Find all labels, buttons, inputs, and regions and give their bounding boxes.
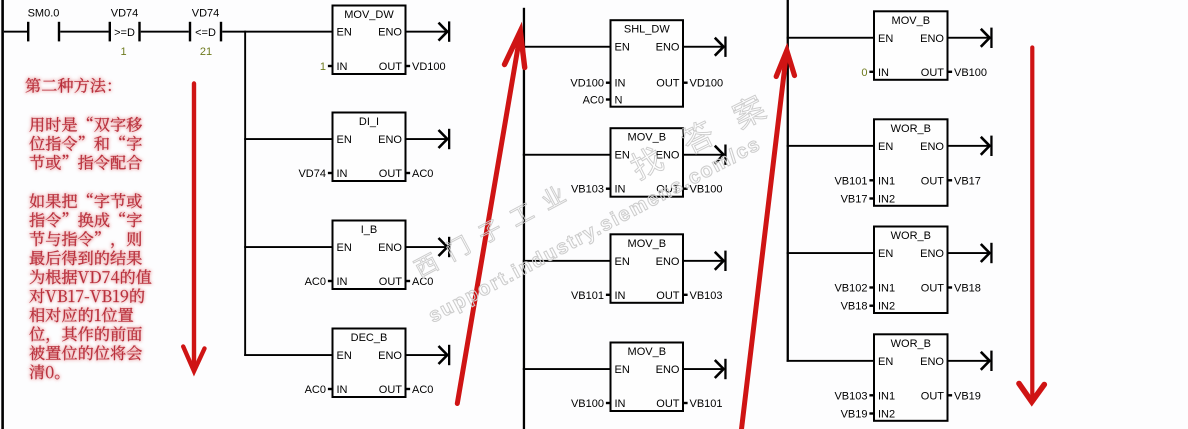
wire branch to DI_I EN <box>244 138 333 140</box>
svg-text:IN: IN <box>615 398 626 410</box>
svg-text:VB103: VB103 <box>834 390 867 402</box>
svg-text:EN: EN <box>615 256 630 268</box>
wire WOR_B n3a ENO to arrow <box>948 145 991 147</box>
svg-text:AC0: AC0 <box>412 168 433 180</box>
svg-text:OUT: OUT <box>921 175 945 187</box>
svg-text:EN: EN <box>615 364 630 376</box>
svg-text:ENO: ENO <box>920 248 944 260</box>
svg-text:OUT: OUT <box>656 398 680 410</box>
wire SM0.0 to VD74 compare1 <box>60 31 108 33</box>
svg-text:ENO: ENO <box>378 350 402 362</box>
wire compare1 to compare2 <box>141 31 189 33</box>
arrow net3 rung3 open <box>981 244 990 262</box>
block WOR_B n3c <box>874 334 948 421</box>
svg-text:OUT: OUT <box>921 67 945 79</box>
wire compare2 to block MOV_DW EN <box>222 31 333 33</box>
wire MOV_B n2a ENO to arrow <box>683 154 724 156</box>
wire rail3 to net3 block1 EN <box>787 37 875 39</box>
svg-text:1: 1 <box>320 61 326 73</box>
svg-text:VB101: VB101 <box>834 175 867 187</box>
svg-text:MOV_B: MOV_B <box>892 15 931 27</box>
svg-text:VB101: VB101 <box>571 290 604 302</box>
wire rail3 to net3 block4 EN <box>787 360 875 362</box>
arrow rung1 open <box>439 23 448 41</box>
contact compare VD74 &gt;=D 1 <box>109 22 111 42</box>
arrow net2 rung3 open <box>715 252 724 270</box>
svg-text:ENO: ENO <box>656 42 680 54</box>
svg-text:ENO: ENO <box>656 150 680 162</box>
red arrow long down right <box>1019 48 1044 402</box>
svg-text:EN: EN <box>878 248 893 260</box>
wire I_B ENO to arrow <box>406 246 449 248</box>
block SHL_DW <box>611 20 684 107</box>
svg-text:ENO: ENO <box>378 27 402 39</box>
svg-text:EN: EN <box>337 27 352 39</box>
svg-text:>=D: >=D <box>114 27 135 39</box>
svg-text:I_B: I_B <box>361 224 378 236</box>
block I_B <box>333 221 406 290</box>
svg-text:IN2: IN2 <box>878 194 895 206</box>
svg-text:SHL_DW: SHL_DW <box>624 24 670 36</box>
svg-text:WOR_B: WOR_B <box>891 338 931 350</box>
svg-text:AC0: AC0 <box>583 95 604 107</box>
svg-text:OUT: OUT <box>379 61 403 73</box>
arrow net2 rung4 open <box>715 360 724 378</box>
arrow rung3 open <box>439 238 448 256</box>
arrow net3 rung4 open <box>981 352 990 370</box>
svg-text:EN: EN <box>878 141 893 153</box>
red arrow up to network3 <box>742 51 795 429</box>
svg-text:ENO: ENO <box>656 256 680 268</box>
svg-text:ENO: ENO <box>656 364 680 376</box>
svg-text:ENO: ENO <box>920 33 944 45</box>
svg-text:OUT: OUT <box>379 276 403 288</box>
power rail left <box>1 0 4 429</box>
arrow rung4 open <box>439 346 448 364</box>
svg-text:OUT: OUT <box>379 168 403 180</box>
wire MOV_DW ENO to arrow <box>406 31 449 33</box>
svg-text:OUT: OUT <box>656 78 680 90</box>
wire rung1 rail to contact SM0.0 <box>4 31 27 33</box>
wire rail2 to net2 block4 EN <box>523 368 612 370</box>
svg-text:WOR_B: WOR_B <box>891 230 931 242</box>
svg-text:IN: IN <box>337 61 348 73</box>
svg-text:IN1: IN1 <box>878 390 895 402</box>
wire WOR_B n3c ENO to arrow <box>948 360 991 362</box>
svg-text:IN1: IN1 <box>878 175 895 187</box>
svg-text:IN2: IN2 <box>878 301 895 313</box>
svg-text:IN: IN <box>337 384 348 396</box>
svg-text:SM0.0: SM0.0 <box>28 8 60 20</box>
svg-text:VD74: VD74 <box>192 8 220 20</box>
svg-text:MOV_B: MOV_B <box>628 346 667 358</box>
svg-text:<=D: <=D <box>195 27 216 39</box>
svg-text:VB101: VB101 <box>690 398 723 410</box>
svg-text:AC0: AC0 <box>305 276 326 288</box>
svg-text:AC0: AC0 <box>305 384 326 396</box>
svg-text:VB102: VB102 <box>834 283 867 295</box>
wire rail2 to net2 block3 EN <box>523 260 612 262</box>
svg-text:IN: IN <box>337 276 348 288</box>
svg-text:VD74: VD74 <box>111 8 139 20</box>
wire rail2 to net2 block2 EN <box>523 154 612 156</box>
wire branch to DEC_B EN <box>244 354 333 356</box>
svg-text:VB17: VB17 <box>954 175 981 187</box>
svg-text:OUT: OUT <box>656 290 680 302</box>
block WOR_B n3b <box>874 227 948 314</box>
wire MOV_B n3 ENO to arrow <box>948 37 991 39</box>
svg-text:EN: EN <box>878 356 893 368</box>
wire DI_I ENO to arrow <box>406 138 449 140</box>
svg-text:IN: IN <box>337 168 348 180</box>
wire branch to I_B EN <box>244 246 333 248</box>
wire MOV_B n2b ENO to arrow <box>683 260 724 262</box>
svg-text:0: 0 <box>861 67 867 79</box>
svg-text:VD74: VD74 <box>298 168 326 180</box>
red arrow up to network2 <box>457 31 524 403</box>
svg-text:IN: IN <box>615 290 626 302</box>
svg-text:IN: IN <box>615 184 626 196</box>
svg-text:21: 21 <box>200 46 212 58</box>
svg-text:VB103: VB103 <box>571 184 604 196</box>
arrow net2 rung1 open <box>715 38 724 56</box>
block DI_I <box>333 113 406 182</box>
svg-text:AC0: AC0 <box>412 384 433 396</box>
svg-text:VB18: VB18 <box>841 301 868 313</box>
block DEC_B <box>333 329 406 398</box>
wire rail3 to net3 block2 EN <box>787 145 875 147</box>
arrow net3 rung1 open <box>981 29 990 47</box>
svg-text:EN: EN <box>615 150 630 162</box>
svg-text:VB18: VB18 <box>954 283 981 295</box>
arrow rung2 open <box>439 130 448 148</box>
svg-text:VB19: VB19 <box>954 390 981 402</box>
svg-text:ENO: ENO <box>920 356 944 368</box>
svg-text:1: 1 <box>120 46 126 58</box>
svg-text:VB100: VB100 <box>954 67 987 79</box>
arrow net2 rung2 open <box>715 146 724 164</box>
svg-text:MOV_B: MOV_B <box>628 132 667 144</box>
block MOV_B n3 <box>874 11 948 80</box>
svg-text:OUT: OUT <box>921 283 945 295</box>
wire rail3 to net3 block3 EN <box>787 252 875 254</box>
svg-text:DI_I: DI_I <box>359 116 379 128</box>
svg-text:VD100: VD100 <box>690 78 724 90</box>
arrow net3 rung2 open <box>981 137 990 155</box>
svg-text:ENO: ENO <box>378 242 402 254</box>
svg-text:EN: EN <box>878 33 893 45</box>
svg-text:EN: EN <box>337 134 352 146</box>
wire WOR_B n3b ENO to arrow <box>948 252 991 254</box>
wire MOV_B n2c ENO to arrow <box>683 368 724 370</box>
svg-text:VD100: VD100 <box>570 78 604 90</box>
svg-text:MOV_DW: MOV_DW <box>344 9 394 21</box>
block MOV_B n2a <box>611 128 684 197</box>
power rail network3 <box>787 0 789 362</box>
red arrow down beside text <box>183 84 204 372</box>
svg-text:WOR_B: WOR_B <box>891 123 931 135</box>
block MOV_DW <box>333 6 406 75</box>
red annotation text halo <box>26 78 152 380</box>
svg-text:VB19: VB19 <box>841 409 868 421</box>
svg-text:EN: EN <box>337 350 352 362</box>
svg-text:IN2: IN2 <box>878 409 895 421</box>
svg-text:VD100: VD100 <box>412 61 446 73</box>
contact compare VD74 &lt;=D 21 <box>189 22 191 42</box>
branch vertical net1 <box>244 31 246 356</box>
svg-text:OUT: OUT <box>921 390 945 402</box>
svg-text:EN: EN <box>337 242 352 254</box>
contact SM0.0 <box>27 22 29 42</box>
block MOV_B n2b <box>611 234 684 302</box>
watermark siemens forum <box>412 92 768 279</box>
wire SHL_DW ENO to arrow <box>683 46 724 48</box>
svg-text:IN1: IN1 <box>878 283 895 295</box>
wire rail2 to net2 block1 EN <box>523 46 612 48</box>
svg-text:N: N <box>615 95 623 107</box>
svg-text:ENO: ENO <box>920 141 944 153</box>
power rail network2 <box>523 8 525 429</box>
svg-text:DEC_B: DEC_B <box>351 332 388 344</box>
svg-text:VB103: VB103 <box>690 290 723 302</box>
svg-text:ENO: ENO <box>378 134 402 146</box>
svg-text:EN: EN <box>615 42 630 54</box>
red annotation text 第二种方法 <box>26 78 152 380</box>
wire DEC_B ENO to arrow <box>406 354 449 356</box>
svg-text:IN: IN <box>878 67 889 79</box>
svg-text:IN: IN <box>615 78 626 90</box>
svg-text:OUT: OUT <box>379 384 403 396</box>
block MOV_B n2c <box>611 343 684 412</box>
svg-text:VB100: VB100 <box>571 398 604 410</box>
svg-text:VB17: VB17 <box>841 194 868 206</box>
svg-text:MOV_B: MOV_B <box>628 238 667 250</box>
block WOR_B n3a <box>874 119 948 206</box>
